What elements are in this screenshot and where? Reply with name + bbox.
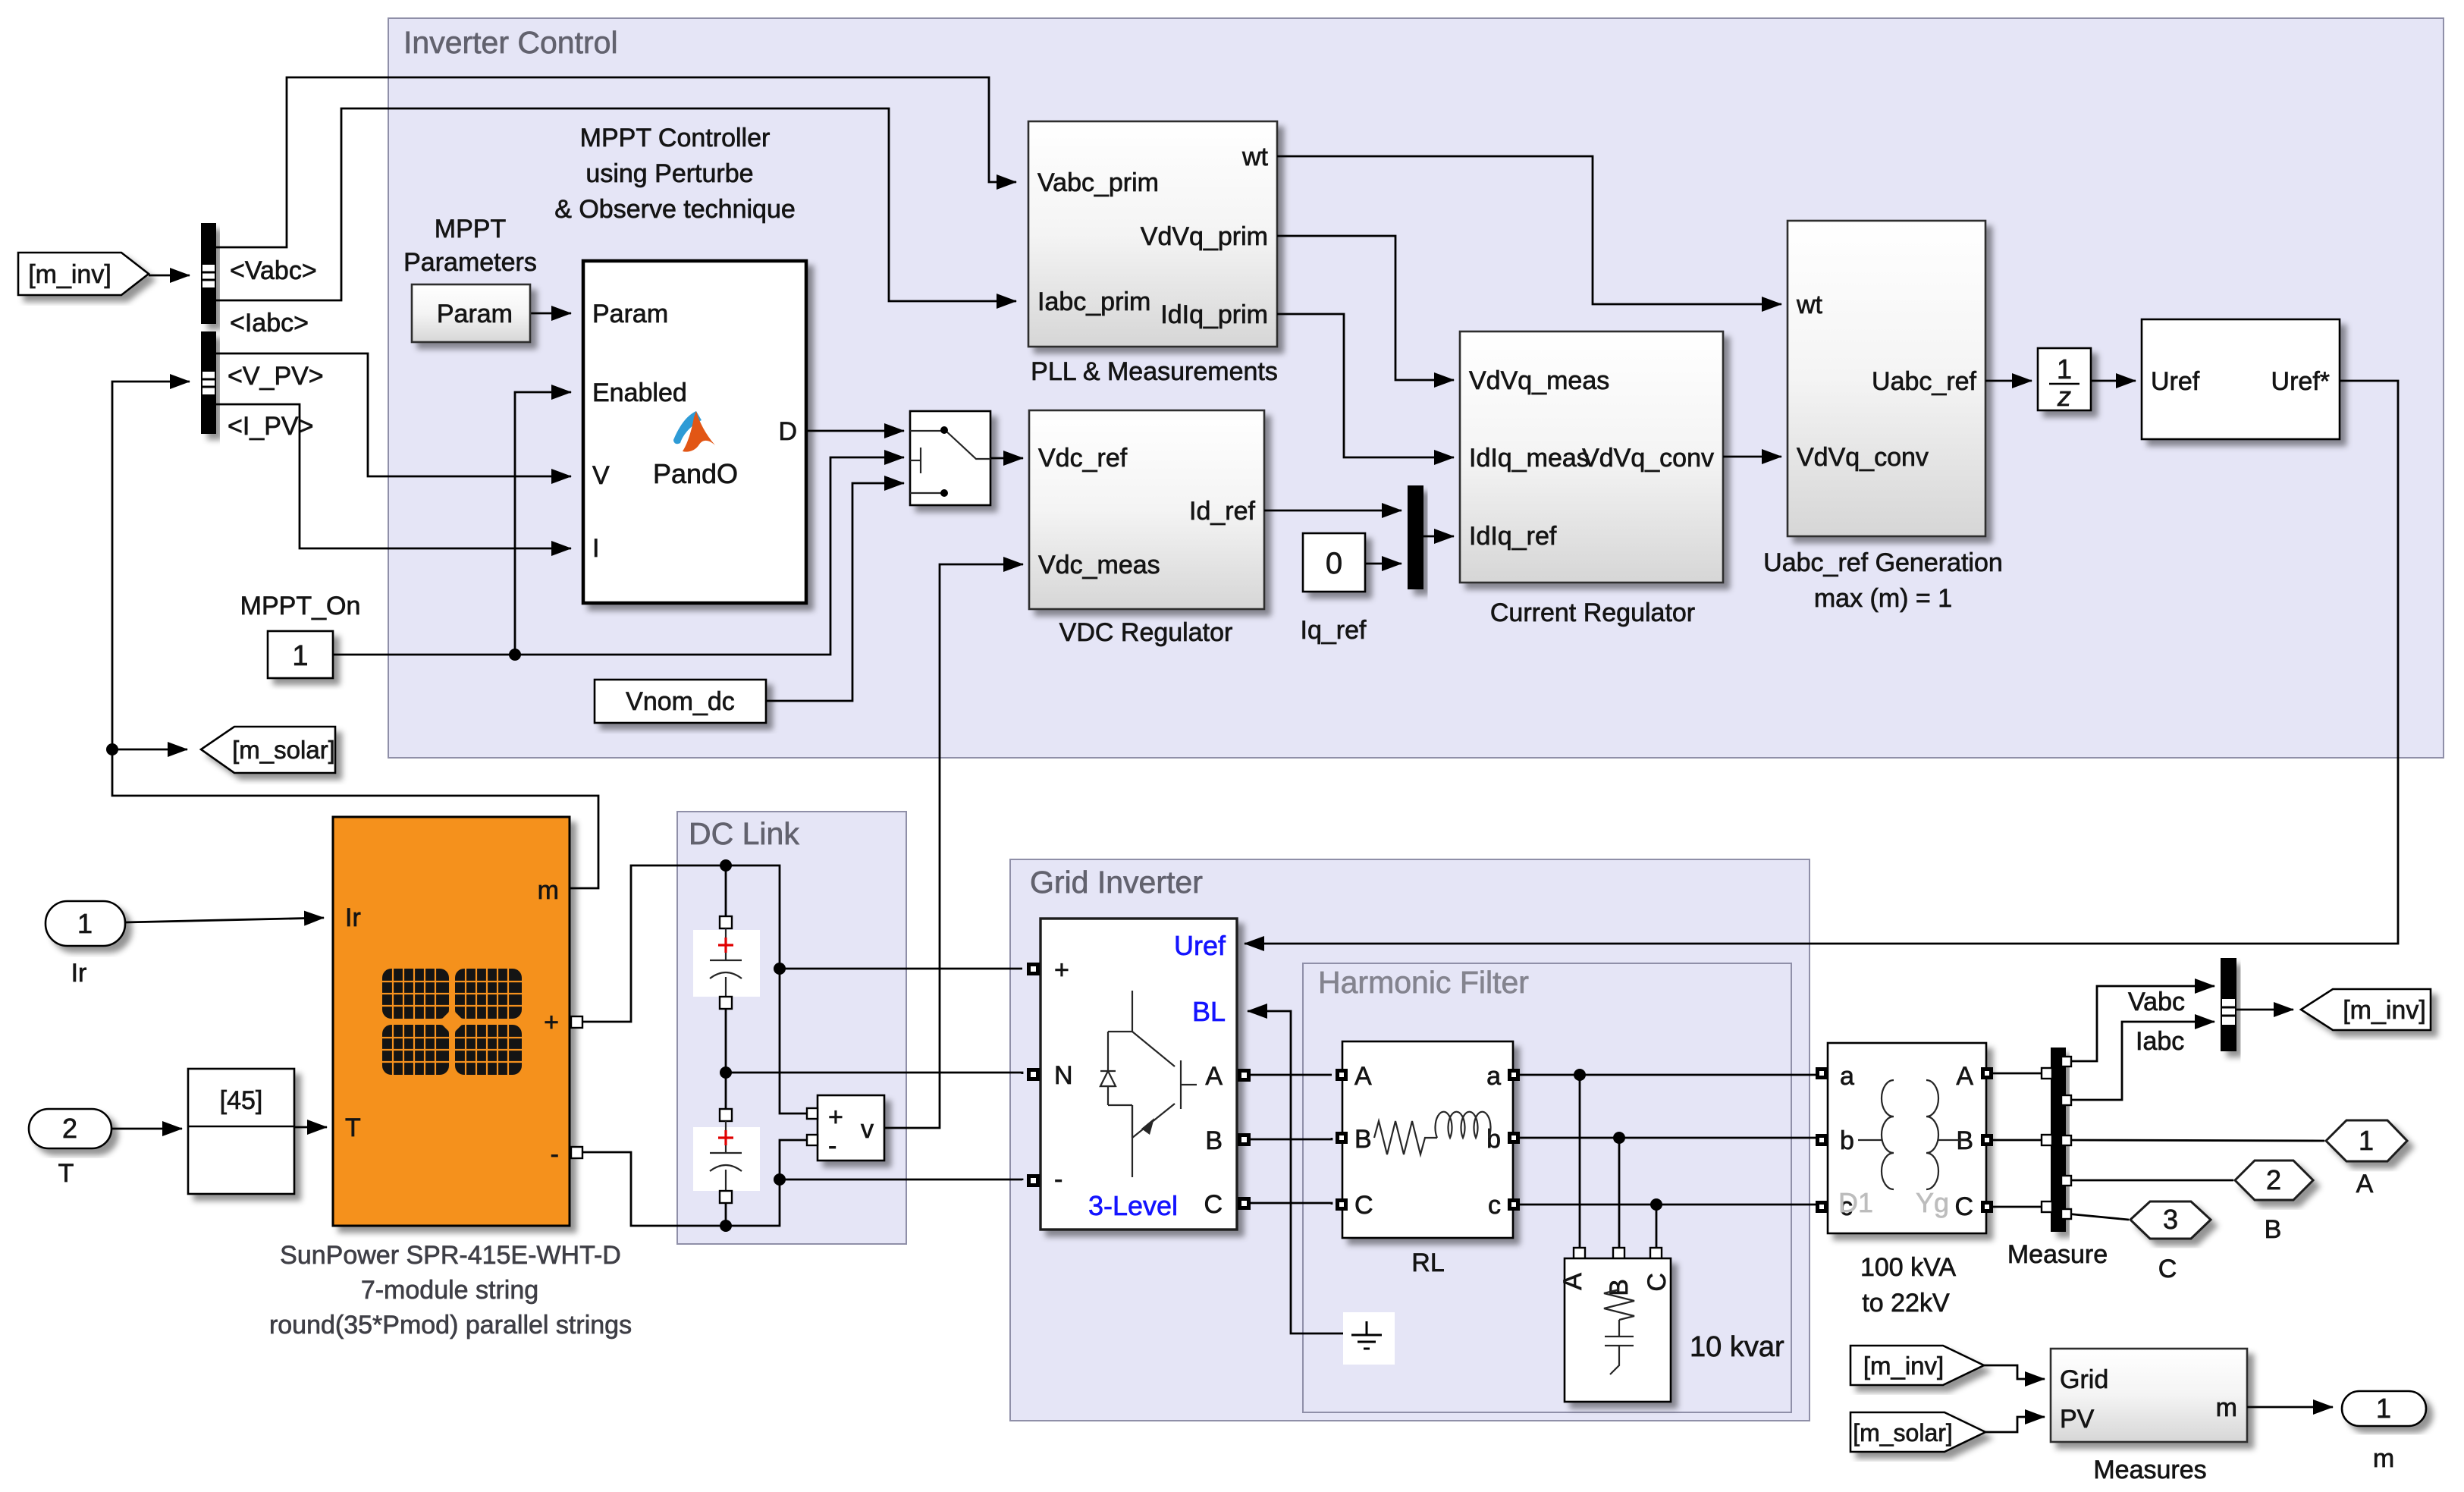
wire: Id_ref to mux <box>1264 510 1401 512</box>
wire: m_solar to Measures PV <box>1985 1417 2045 1432</box>
wire: B to RL <box>1251 1138 1332 1139</box>
wire: Ir to PV <box>125 918 324 922</box>
area: Inverter Control <box>388 18 2444 758</box>
wire: VdVq_conv to Uabc gen <box>1723 456 1781 458</box>
block: 10 kvar capacitor bank <box>1565 1258 1671 1402</box>
wire: m output of PV to m_solar and selector2 <box>112 749 598 888</box>
svg-text:<Vabc>: <Vabc> <box>230 256 317 285</box>
wire: MPPT_On to switch input 2 and Enabled branch <box>333 457 904 655</box>
wire: Uabc_ref to 1/z <box>1985 380 2032 382</box>
wire: [45] to PV T <box>294 1126 327 1129</box>
svg-text:2: 2 <box>62 1113 77 1144</box>
wire: BL from ground <box>1248 1011 1362 1333</box>
svg-text:<I_PV>: <I_PV> <box>228 412 313 441</box>
icon: solar panel <box>382 969 522 1075</box>
wire: PV + to DC link <box>576 865 726 1022</box>
wires: transformer to Measure <box>1993 1073 2045 1075</box>
goto tag [m_inv] right <box>2301 989 2431 1030</box>
block: PLL & Measurements <box>1028 121 1277 347</box>
svg-text:C: C <box>1204 1190 1223 1219</box>
wire: Uref* return to 3-Level Uref port <box>1245 381 2398 944</box>
wire: v measurement to Vdc_meas <box>884 564 1023 1128</box>
svg-text:-: - <box>828 1132 837 1161</box>
capacitor C1 <box>693 930 760 997</box>
svg-text:Grid: Grid <box>2060 1365 2108 1394</box>
wire: RL a to transformer a <box>1520 1073 1819 1075</box>
wire: RL b to transformer b <box>1520 1138 1819 1140</box>
junction: phase c tap <box>1650 1198 1662 1211</box>
svg-text:SunPower SPR-415E-WHT-D: SunPower SPR-415E-WHT-D <box>280 1241 621 1270</box>
wire: I_PV to PandO I <box>216 404 571 548</box>
svg-text:N: N <box>1054 1061 1073 1090</box>
wire: V_PV to PandO V <box>216 353 571 476</box>
svg-text:Current Regulator: Current Regulator <box>1490 598 1695 627</box>
from tag [m_inv] bottom <box>1850 1346 1984 1385</box>
svg-text:B: B <box>1354 1125 1372 1154</box>
svg-text:Ir: Ir <box>71 959 87 988</box>
svg-text:Grid Inverter: Grid Inverter <box>1030 865 1203 900</box>
wire: + rail to 3-Level <box>780 968 1022 970</box>
wire: IdIq_prim to IdIq_meas <box>1277 314 1454 457</box>
svg-text:A: A <box>1205 1062 1223 1091</box>
block: RL filter <box>1342 1041 1513 1238</box>
svg-text:MPPT_On: MPPT_On <box>240 592 361 620</box>
svg-text:V: V <box>592 461 610 490</box>
svg-text:max (m) = 1: max (m) = 1 <box>1814 584 1952 613</box>
svg-text:1: 1 <box>292 640 308 672</box>
wire: RL c to transformer c <box>1520 1205 1819 1207</box>
svg-text:C: C <box>1643 1273 1671 1292</box>
svg-text:1: 1 <box>77 908 93 939</box>
block: MPPT_On constant 1 <box>268 631 333 678</box>
svg-text:VDC Regulator: VDC Regulator <box>1059 618 1233 647</box>
capacitor C2 <box>693 1127 760 1191</box>
svg-text:[m_solar]: [m_solar] <box>1853 1419 1953 1446</box>
wire: switch to Vdc_ref <box>990 457 1023 460</box>
wire: m_inv to Measures Grid <box>1984 1365 2045 1379</box>
svg-text:10 kvar: 10 kvar <box>1690 1331 1784 1363</box>
block: DC voltage measurement <box>818 1095 884 1161</box>
svg-text:Param: Param <box>592 300 668 328</box>
svg-text:[m_inv]: [m_inv] <box>28 260 111 289</box>
output pad 2 B <box>2235 1161 2313 1200</box>
output pad 3 C <box>2130 1201 2211 1239</box>
junction: phase a tap <box>1574 1069 1586 1081</box>
svg-text:Vabc_prim: Vabc_prim <box>1037 168 1159 197</box>
wire: m signal to selector 2 <box>112 382 190 749</box>
svg-text:Measure: Measure <box>2007 1240 2108 1269</box>
junction: MPPT_On / Enabled branch <box>509 649 521 661</box>
from tag [m_inv] top-left <box>18 253 149 295</box>
wire: N rail to 3-Level <box>726 1073 1022 1074</box>
svg-text:D: D <box>778 417 797 446</box>
svg-text:VdVq_conv: VdVq_conv <box>1797 443 1929 472</box>
svg-text:1: 1 <box>2376 1393 2391 1424</box>
svg-text:wt: wt <box>1796 291 1823 319</box>
svg-text:A: A <box>1354 1062 1372 1091</box>
block: Param source <box>412 284 530 342</box>
junction: DC+ node <box>720 859 732 872</box>
svg-text:Inverter Control: Inverter Control <box>403 25 618 60</box>
wire: A to RL <box>1251 1074 1332 1076</box>
wire: mux to IdIq_ref <box>1423 536 1454 538</box>
svg-text:a: a <box>1486 1062 1501 1091</box>
svg-text:using Perturbe: using Perturbe <box>585 159 753 188</box>
icon: IGBT with diode <box>1100 991 1197 1177</box>
wire: bus creator to [m_inv] goto <box>2236 1009 2293 1011</box>
svg-text:z: z <box>2057 381 2071 412</box>
block: manual switch <box>910 411 990 505</box>
svg-text:+: + <box>1054 956 1069 985</box>
svg-text:VdVq_meas: VdVq_meas <box>1469 366 1609 395</box>
wire: wt to Uabc_ref Generation <box>1277 156 1781 304</box>
wire: Vabc to PLL Vabc_prim <box>216 77 1016 247</box>
block: Vnom_dc <box>595 680 766 723</box>
wire: PandO D to switch input 1 <box>806 430 904 432</box>
svg-text:Uref*: Uref* <box>2271 367 2330 396</box>
svg-text:m: m <box>538 876 559 905</box>
svg-text:3: 3 <box>2163 1204 2178 1235</box>
svg-text:-: - <box>551 1140 559 1169</box>
area: DC Link <box>677 812 906 1244</box>
svg-text:Vnom_dc: Vnom_dc <box>626 687 735 716</box>
block: transformer 100kVA <box>1828 1043 1986 1233</box>
svg-text:DC Link: DC Link <box>689 816 799 851</box>
svg-text:-: - <box>1054 1165 1063 1194</box>
block: MPPT PandO controller U1 <box>583 261 806 603</box>
wire: Iabc to PLL Iabc_prim <box>216 108 1016 301</box>
junction: + rail tap <box>774 963 786 975</box>
wire: top junction right branch down to V+ <box>726 865 812 1114</box>
svg-text:[m_inv]: [m_inv] <box>1863 1352 1944 1380</box>
port squares RL <box>1336 1069 1348 1081</box>
icon: resistor and inductor <box>1374 1112 1491 1154</box>
svg-text:3-Level: 3-Level <box>1088 1190 1178 1221</box>
block: PV array SunPower <box>333 817 570 1226</box>
wire: 1/z to Uref <box>2091 380 2136 382</box>
svg-text:m: m <box>2373 1444 2394 1473</box>
svg-text:Vdc_ref: Vdc_ref <box>1038 444 1128 473</box>
svg-text:PV: PV <box>2060 1405 2095 1434</box>
svg-text:Harmonic Filter: Harmonic Filter <box>1318 965 1529 1000</box>
svg-text:Measures: Measures <box>2093 1456 2206 1484</box>
svg-text:1: 1 <box>2359 1125 2374 1156</box>
svg-text:a: a <box>1840 1062 1854 1091</box>
svg-text:Uref: Uref <box>1174 930 1226 961</box>
wire: C to RL <box>1251 1203 1332 1205</box>
svg-text:c: c <box>1488 1191 1501 1220</box>
wire: Iabc to bus creator <box>2066 1022 2214 1100</box>
input port 1 Ir <box>46 901 125 946</box>
wire: bottom junction right branch up to V- <box>726 1179 780 1226</box>
goto tag [m_solar] <box>201 727 335 773</box>
svg-text:IdIq_meas: IdIq_meas <box>1469 444 1590 473</box>
block: Uabc_ref Generation <box>1788 221 1985 536</box>
port squares 3-Level <box>1027 963 1040 975</box>
svg-text:MPPT Controller: MPPT Controller <box>580 124 771 152</box>
port squares on PV <box>571 1016 582 1028</box>
svg-text:C: C <box>1354 1191 1373 1220</box>
junction: - rail tap <box>774 1173 786 1186</box>
junction: DC- node <box>720 1220 732 1232</box>
svg-text:Uref: Uref <box>2151 367 2200 396</box>
area: Harmonic Filter <box>1303 963 1791 1412</box>
svg-text:Iq_ref: Iq_ref <box>1301 616 1367 645</box>
svg-text:[m_inv]: [m_inv] <box>2343 996 2426 1025</box>
wire: 0 to mux <box>1365 563 1401 565</box>
svg-text:IdIq_ref: IdIq_ref <box>1469 522 1557 551</box>
svg-text:Enabled: Enabled <box>592 378 687 407</box>
svg-text:7-module string: 7-module string <box>361 1276 538 1305</box>
svg-text:A: A <box>1558 1273 1587 1290</box>
svg-text:2: 2 <box>2266 1164 2281 1195</box>
svg-text:1: 1 <box>2057 353 2072 385</box>
svg-text:Id_ref: Id_ref <box>1189 497 1255 526</box>
svg-text:b: b <box>1840 1126 1854 1155</box>
svg-text:100 kVA: 100 kVA <box>1860 1253 1956 1282</box>
svg-text:+: + <box>544 1008 559 1037</box>
from tag [m_solar] bottom <box>1850 1412 1985 1452</box>
svg-text:to 22kV: to 22kV <box>1862 1289 1950 1318</box>
svg-text:& Observe technique: & Observe technique <box>554 195 796 224</box>
wire: Measures m to output 1 <box>2247 1406 2333 1409</box>
svg-text:D1: D1 <box>1838 1187 1873 1218</box>
svg-text:Iabc_prim: Iabc_prim <box>1037 287 1150 316</box>
svg-text:Iabc: Iabc <box>2136 1027 2184 1056</box>
svg-text:Ir: Ir <box>345 903 361 932</box>
svg-text:BL: BL <box>1192 996 1226 1027</box>
wire: Vnom_dc to switch input 3 <box>766 483 904 701</box>
junction: m signal branch <box>106 743 118 755</box>
svg-text:PLL & Measurements: PLL & Measurements <box>1031 357 1278 386</box>
svg-text:C: C <box>2158 1255 2177 1283</box>
svg-text:T: T <box>58 1159 74 1188</box>
block: Measure multimeter bar <box>2051 1048 2066 1232</box>
wire: Param to PandO <box>530 313 571 315</box>
bus selector 1 <box>201 223 216 324</box>
output pad 1 A <box>2326 1120 2407 1161</box>
wires: Measure to output pads <box>2066 1140 2324 1141</box>
switch contact dots <box>940 426 948 434</box>
icon: MATLAB logo <box>673 411 715 452</box>
svg-text:B: B <box>1605 1279 1634 1296</box>
svg-text:B: B <box>2265 1215 2282 1244</box>
junction: DC neutral node <box>720 1066 732 1079</box>
ground <box>1343 1312 1395 1365</box>
svg-text:[45]: [45] <box>220 1086 263 1115</box>
svg-text:+: + <box>828 1103 843 1132</box>
svg-text:Parameters: Parameters <box>403 248 537 277</box>
block: [45] lookup <box>188 1069 294 1194</box>
area: Grid Inverter <box>1010 859 1810 1421</box>
block: Uref rate transition <box>2142 319 2340 439</box>
svg-text:MPPT: MPPT <box>435 215 506 243</box>
mux <box>1408 485 1423 589</box>
block: Current Regulator <box>1460 331 1723 583</box>
svg-text:Uabc_ref: Uabc_ref <box>1872 367 1977 396</box>
svg-text:IdIq_prim: IdIq_prim <box>1160 300 1268 329</box>
block: 3-Level inverter bridge <box>1041 919 1237 1230</box>
wires down to 10 kvar bank <box>1579 1075 1581 1252</box>
block: unit delay 1/z <box>2038 348 2091 412</box>
svg-text:wt: wt <box>1241 143 1269 171</box>
svg-text:Vabc: Vabc <box>2128 988 2185 1016</box>
svg-text:Uabc_ref Generation: Uabc_ref Generation <box>1763 548 2003 577</box>
svg-text:I: I <box>592 534 599 563</box>
wire: T to [45] <box>111 1128 182 1130</box>
output port 1 m <box>2342 1391 2426 1426</box>
svg-text:[m_solar]: [m_solar] <box>232 736 335 764</box>
svg-text:A: A <box>2356 1170 2374 1198</box>
port squares transformer <box>1816 1067 1828 1079</box>
wire: Vabc to bus creator <box>2066 986 2214 1061</box>
svg-text:b: b <box>1486 1125 1501 1154</box>
svg-text:Vdc_meas: Vdc_meas <box>1038 551 1160 580</box>
svg-text:m: m <box>2216 1393 2237 1422</box>
svg-text:A: A <box>1956 1062 1973 1091</box>
svg-text:Yg: Yg <box>1916 1187 1949 1218</box>
svg-text:PandO: PandO <box>653 458 738 489</box>
bus selector 2 <box>201 331 216 434</box>
svg-text:B: B <box>1205 1126 1223 1155</box>
svg-text:C: C <box>1954 1192 1973 1221</box>
junction: phase b tap <box>1613 1132 1625 1144</box>
svg-text:T: T <box>345 1114 361 1142</box>
svg-text:RL: RL <box>1411 1249 1444 1277</box>
bus creator <box>2221 958 2236 1051</box>
svg-text:VdVq_prim: VdVq_prim <box>1141 222 1268 251</box>
block: VDC Regulator <box>1029 410 1264 609</box>
block: Measures <box>2051 1349 2247 1442</box>
svg-text:VdVq_conv: VdVq_conv <box>1582 444 1714 473</box>
block: Iq_ref constant 0 <box>1303 533 1365 592</box>
wire: - rail to 3-Level <box>780 1179 1022 1180</box>
svg-text:<Iabc>: <Iabc> <box>230 309 309 338</box>
svg-text:<V_PV>: <V_PV> <box>228 362 324 391</box>
icon: transformer coils <box>1858 1080 1962 1189</box>
wire: from [m_inv] to bus selector 1 <box>149 275 190 277</box>
svg-text:0: 0 <box>1326 547 1342 580</box>
wire: PV - to DC link <box>576 1152 726 1226</box>
svg-text:Param: Param <box>437 300 513 328</box>
svg-text:v: v <box>861 1115 874 1144</box>
wire: VdVq_prim to VdVq_meas <box>1277 236 1454 380</box>
input port 2 T <box>29 1109 111 1148</box>
svg-text:round(35*Pmod) parallel string: round(35*Pmod) parallel strings <box>269 1311 632 1340</box>
